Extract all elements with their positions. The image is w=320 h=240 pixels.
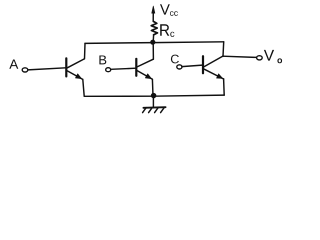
power Vcc arrow bbox=[152, 6, 155, 22]
input terminal B bbox=[106, 68, 111, 72]
input terminal A bbox=[22, 68, 28, 72]
wire: bottom emitter rail bbox=[84, 95, 224, 96]
label Vcc bbox=[160, 4, 178, 16]
output terminal Vo bbox=[257, 56, 263, 60]
wire: Q1 emitter riser bbox=[83, 79, 84, 96]
wire: Q1 collector riser bbox=[84, 44, 87, 59]
label A bbox=[9, 60, 18, 69]
wire: A to Q1 base bbox=[28, 68, 66, 70]
wire: C to Q3 base bbox=[182, 65, 203, 67]
transistor Q3 bbox=[203, 56, 224, 79]
junction dot: Rc tap on collector rail bbox=[150, 40, 155, 45]
wire: Q3 collector riser bbox=[222, 42, 225, 57]
label C bbox=[171, 55, 179, 64]
wire: top collector rail bbox=[85, 42, 224, 44]
wire: Q3 emitter riser bbox=[223, 79, 226, 95]
label B bbox=[99, 56, 106, 65]
transistor Q1 bbox=[66, 58, 84, 79]
label Rc bbox=[160, 24, 174, 37]
resistor Rc bbox=[151, 21, 157, 42]
input terminal C bbox=[177, 65, 182, 69]
transistor Q2 bbox=[136, 59, 153, 79]
ground bbox=[143, 96, 166, 113]
wire: Q2 collector riser bbox=[152, 43, 154, 60]
wire: Q2 emitter riser bbox=[151, 79, 154, 96]
wire: B to Q2 base bbox=[111, 68, 136, 69]
label Vo bbox=[264, 50, 282, 63]
junction dot: ground tap on emitter rail bbox=[151, 93, 157, 99]
wire: collector node to Vo terminal bbox=[223, 56, 257, 57]
